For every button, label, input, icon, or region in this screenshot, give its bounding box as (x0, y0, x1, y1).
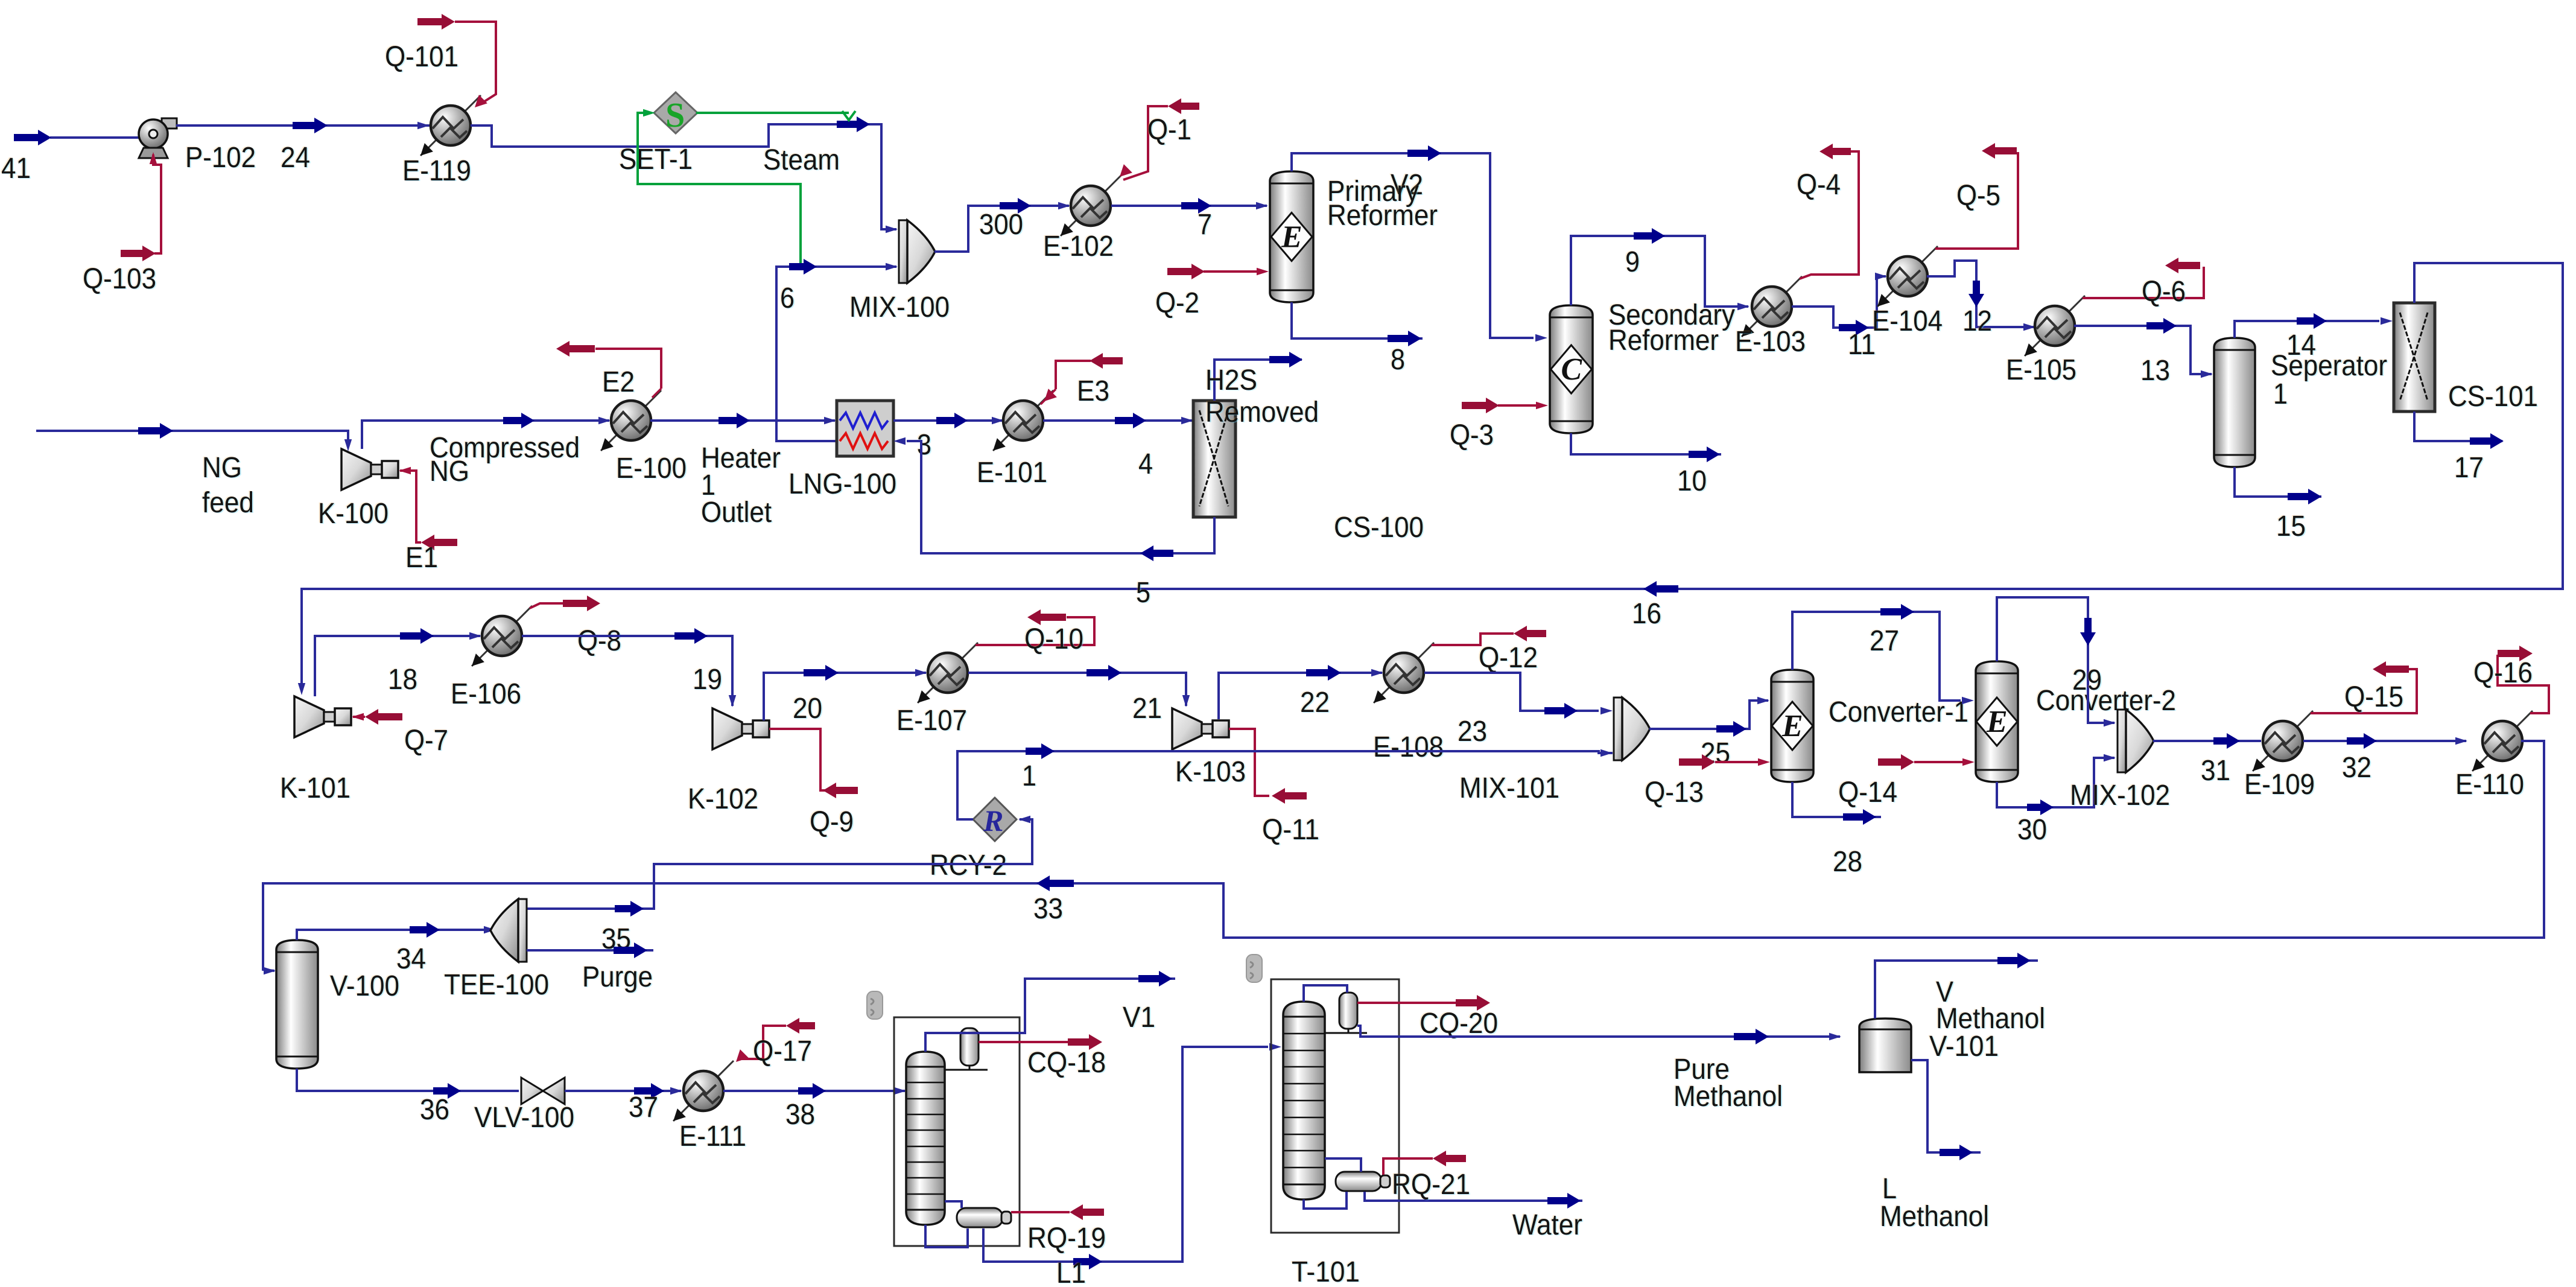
heat exchanger E-103 (1742, 276, 1802, 337)
svg-text:Q-15: Q-15 (2344, 681, 2403, 713)
E-102 inlet arrowhead (1058, 202, 1070, 209)
NG feed arrow (138, 423, 173, 439)
CQ-20 arrow (1456, 995, 1490, 1011)
svg-text:V1: V1 (1123, 1002, 1155, 1034)
Q-9 arrow (823, 783, 858, 798)
svg-text:Q-103: Q-103 (83, 263, 156, 295)
wire T-101 bottoms to reboiler (1325, 1158, 1361, 1172)
svg-text:P-102: P-102 (185, 142, 256, 174)
svg-text:Removed: Removed (1205, 396, 1319, 428)
wire stream 10 (1571, 433, 1721, 454)
RCY-2 inlet arrowhead (1018, 816, 1030, 823)
svg-text:E: E (1986, 705, 2008, 739)
svg-text:R: R (983, 804, 1003, 837)
valve VLV-100 (521, 1078, 565, 1104)
stream 9 arrow (1634, 228, 1665, 244)
stream 24 arrow (293, 118, 328, 133)
Q-2 arrow (1167, 264, 1205, 279)
Q-8 arrow (563, 596, 600, 611)
reactor diamond Converter-1 (1772, 702, 1813, 750)
svg-text:Q-17: Q-17 (753, 1035, 812, 1067)
svg-text:21: 21 (1132, 693, 1162, 725)
svg-text:Q-13: Q-13 (1645, 777, 1704, 809)
stream 41 arrow (14, 130, 51, 145)
stream 33 arrow (1036, 875, 1074, 891)
wire stream 24 P-102 to E-119 (176, 124, 430, 127)
wire Compressed NG K-100 to E-100 (362, 421, 609, 449)
compressor K-103 (1172, 708, 1229, 749)
compressor K-102 (712, 708, 769, 749)
svg-text:E-119: E-119 (402, 155, 471, 187)
svg-text:Q-2: Q-2 (1155, 287, 1199, 319)
Q-12 arrow (1514, 626, 1546, 641)
heat exchanger E-100 (601, 390, 661, 451)
H2S Removed arrow (1269, 352, 1302, 367)
wire stream 31 MIX-102 to E-109 (2153, 740, 2261, 742)
Q-11 arrow (1272, 788, 1307, 804)
heat exchanger E-101 (993, 390, 1053, 451)
svg-text:RQ-21: RQ-21 (1392, 1169, 1470, 1201)
svg-text:19: 19 (693, 664, 722, 696)
Secondary Reformer inlet arrowhead (1535, 334, 1547, 342)
CS-100 inlet arrowhead (1181, 417, 1193, 424)
svg-text:17: 17 (2454, 452, 2484, 484)
vessel Converter-1 (1771, 670, 1813, 782)
stream 25 arrow (1716, 721, 1746, 737)
heat exchanger E-111 (673, 1061, 734, 1121)
svg-text:S: S (665, 95, 685, 135)
wire stream 6 LNG-100 to MIX-100 (776, 267, 896, 441)
svg-text:Methanol: Methanol (1880, 1201, 1989, 1233)
wire Purge stream (527, 949, 653, 952)
stream 20 arrow (804, 665, 839, 681)
wire energy Q-12 (1432, 634, 1514, 645)
wire stream L Methanol (1911, 1060, 1981, 1152)
svg-text:E-111: E-111 (679, 1120, 746, 1152)
reactor diamond Secondary Reformer (1551, 345, 1592, 393)
svg-text:32: 32 (2342, 752, 2371, 784)
svg-text:33: 33 (1033, 893, 1063, 925)
svg-text:E-107: E-107 (896, 705, 967, 737)
K-101 inlet arrowhead (298, 683, 305, 695)
MIX-101 top inlet arrowhead (1600, 707, 1613, 714)
wire stream 38 E-111 to T-100 (723, 1090, 905, 1092)
svg-text:RCY-2: RCY-2 (930, 850, 1007, 882)
svg-text:Methanol: Methanol (1673, 1081, 1783, 1113)
stream 19 arrow (674, 628, 708, 644)
svg-text:Q-5: Q-5 (1956, 180, 2000, 212)
stream 21 arrow (1087, 665, 1121, 681)
wire stream 3 LNG-100 to E-101 (893, 419, 1003, 422)
svg-text:300: 300 (979, 209, 1023, 241)
svg-text:E: E (1281, 220, 1302, 255)
stream 15 arrow (2288, 489, 2321, 504)
Q-17 arrow (786, 1018, 815, 1034)
wire stream 20 K-102 to E-107 (764, 673, 926, 720)
svg-text:feed: feed (202, 487, 254, 519)
wire Steam line E-119 to MIX-100 (471, 124, 896, 229)
svg-text:NG: NG (202, 452, 242, 484)
svg-text:CQ-18: CQ-18 (1027, 1047, 1106, 1079)
stream 13 arrow (2146, 318, 2177, 334)
svg-text:Q-10: Q-10 (1024, 623, 1083, 655)
svg-text:Water: Water (1512, 1209, 1582, 1241)
svg-text:27: 27 (1870, 625, 1899, 657)
svg-text:16: 16 (1632, 598, 1661, 630)
vessel Converter-2 (1976, 661, 2018, 782)
K-100 inlet arrowhead (344, 439, 352, 451)
svg-text:13: 13 (2140, 355, 2170, 387)
wire stream 33 E-110 to V-100 (263, 741, 2544, 971)
Steam stream arrow (837, 116, 870, 132)
Q-103 arrow (121, 246, 156, 261)
svg-text:VLV-100: VLV-100 (474, 1102, 574, 1134)
wire stream 28 (1792, 782, 1881, 817)
svg-text:9: 9 (1625, 246, 1640, 278)
svg-text:E3: E3 (1077, 375, 1109, 407)
svg-text:Q-12: Q-12 (1479, 642, 1538, 674)
column frame T-100 (894, 1017, 1020, 1246)
Q-4 arrow (1819, 144, 1851, 159)
wire stream V Methanol (1875, 961, 2038, 1018)
wire Water stream (1365, 1192, 1582, 1201)
heat exchanger E-119 (420, 95, 481, 156)
svg-text:14: 14 (2286, 329, 2316, 361)
wire energy E3 (1056, 361, 1091, 389)
Q-7 arrowhead (352, 713, 364, 720)
Compressed NG arrow (503, 413, 535, 428)
svg-text:Purge: Purge (582, 961, 653, 993)
wire stream 32 E-109 to E-110 (2303, 740, 2466, 742)
Q-7 arrow (365, 709, 402, 725)
stream 29 down arrow (2080, 618, 2096, 646)
svg-text:Q-14: Q-14 (1838, 777, 1897, 809)
wire stream 25 MIX-101 to Converter-1 (1649, 701, 1768, 729)
wire T-100 overhead / stream V1 (925, 979, 1175, 1052)
component splitter CS-101 (2394, 303, 2435, 412)
stream 27 arrow (1880, 604, 1914, 620)
vessel Secondary Reformer (1550, 305, 1593, 433)
svg-text:Q-4: Q-4 (1797, 169, 1841, 201)
wire energy Q-3 (1498, 404, 1536, 407)
wire stream 7 E-102 to Primary Reformer (1111, 205, 1267, 207)
component splitter CS-100 (1193, 401, 1236, 517)
heat exchanger E-109 (2253, 711, 2313, 771)
wire T-100 bottoms to reboiler (945, 1201, 962, 1208)
wire energy E1 (400, 471, 421, 542)
wire energy Q-103 (153, 154, 161, 253)
Q-3 arrow (1462, 398, 1499, 413)
wire energy Q-5 (1935, 152, 2018, 249)
wire energy Q-16 (2498, 655, 2549, 713)
mixer MIX-101 (1614, 698, 1650, 760)
pump P-102 (139, 118, 177, 158)
svg-text:Converter-2: Converter-2 (2036, 685, 2176, 717)
RQ-19 arrow (1070, 1204, 1104, 1220)
E-106 inlet arrowhead (469, 632, 481, 640)
heat exchanger E-102 (1061, 176, 1121, 236)
svg-text:LNG-100: LNG-100 (788, 468, 896, 500)
wire Pure Methanol stream to V-101 (1357, 1026, 1840, 1037)
E-100 inlet arrowhead (598, 417, 611, 424)
LNG-100 cold inlet arrowhead (893, 437, 906, 445)
stream 37 arrow (634, 1083, 664, 1099)
LNG exchanger LNG-100 (837, 401, 893, 456)
E1 arrow (421, 535, 457, 550)
svg-text:E1: E1 (405, 542, 438, 574)
svg-text:E: E (1781, 709, 1803, 743)
wire stream 29 Converter-2 to MIX-102 (1997, 597, 2114, 723)
heat exchanger E-108 (1374, 643, 1434, 703)
condenser T-100 (945, 1028, 988, 1070)
Purge arrow (614, 942, 647, 958)
wire stream 8 (1292, 302, 1423, 338)
svg-text:29: 29 (2072, 664, 2102, 696)
svg-text:MIX-101: MIX-101 (1459, 772, 1559, 804)
svg-text:Q-7: Q-7 (404, 725, 448, 757)
svg-text:Q-9: Q-9 (810, 806, 854, 838)
svg-text:TEE-100: TEE-100 (444, 969, 549, 1001)
svg-text:T-101: T-101 (1292, 1256, 1360, 1284)
reboiler T-101 (1336, 1172, 1390, 1191)
column shell T-100 (906, 1052, 945, 1225)
svg-text:3: 3 (917, 429, 931, 461)
stream 6 arrow (789, 259, 817, 275)
stream 11 arrow (1839, 320, 1869, 335)
V-101 inlet arrowhead (1829, 1033, 1841, 1040)
stream 7 arrow (1181, 198, 1211, 214)
RQ-21 arrow (1433, 1151, 1466, 1166)
svg-text:NG: NG (430, 456, 469, 488)
CS-101 inlet arrowhead (2381, 317, 2393, 325)
svg-text:7: 7 (1198, 209, 1212, 241)
wire stream 21 E-107 to K-103 (968, 673, 1186, 706)
wire energy Q-7 (353, 716, 365, 718)
stream 16 arrow (1643, 581, 1678, 597)
svg-text:CS-101: CS-101 (2448, 381, 2538, 413)
signal arrowhead down (842, 111, 855, 120)
Q-14 arrow (1878, 754, 1914, 770)
wire stream V2 Primary to Secondary Reformer (1292, 153, 1534, 338)
svg-text:Q-101: Q-101 (385, 41, 458, 73)
heat exchanger E-107 (918, 643, 978, 703)
Primary Reformer inlet arrowhead (1256, 202, 1268, 209)
wire energy Q-11 (1229, 729, 1269, 796)
svg-text:Reformer: Reformer (1608, 325, 1719, 357)
mixer MIX-102 (2118, 710, 2154, 772)
svg-text:5: 5 (1136, 577, 1150, 609)
CQ-18 arrow (1068, 1034, 1102, 1050)
stream 32 arrow (2347, 733, 2377, 749)
svg-text:41: 41 (1, 153, 31, 185)
Converter-1 inlet arrowhead (1757, 697, 1769, 704)
condenser T-101 (1325, 993, 1367, 1033)
wire stream 36 V-100 to VLV-100 (297, 1069, 519, 1091)
column shell T-101 (1283, 1002, 1325, 1200)
svg-text:18: 18 (388, 664, 417, 696)
svg-text:K-100: K-100 (318, 498, 389, 530)
wire energy Q-13 (1715, 761, 1758, 763)
K-103 inlet arrowhead (1182, 695, 1190, 707)
svg-text:E-101: E-101 (977, 457, 1047, 489)
svg-text:Q-6: Q-6 (2142, 276, 2186, 308)
MIX-100 top inlet arrowhead (886, 226, 898, 233)
stream 3 arrow (936, 413, 968, 428)
MIX-102 bottom inlet arrowhead (2104, 754, 2116, 761)
svg-text:4: 4 (1138, 448, 1153, 480)
svg-text:C: C (1561, 352, 1583, 387)
tee TEE-100 (490, 899, 527, 962)
svg-text:36: 36 (420, 1094, 449, 1126)
vessel V-100 (276, 940, 318, 1069)
wire energy Q-15 (2311, 669, 2417, 713)
MIX-100 bottom inlet arrowhead (886, 263, 898, 270)
stream 34 arrow (410, 922, 440, 938)
svg-text:8: 8 (1391, 344, 1405, 376)
Q-16 arrow (2498, 646, 2533, 661)
svg-text:22: 22 (1300, 687, 1330, 719)
stream 22 arrow (1306, 665, 1341, 681)
mixer MIX-100 (899, 220, 935, 283)
stream 14 arrow (2297, 313, 2327, 329)
wire energy Q-101 (455, 22, 496, 103)
svg-text:H2S: H2S (1205, 364, 1257, 396)
svg-text:MIX-100: MIX-100 (849, 291, 950, 323)
wire energy CQ-18 (979, 1041, 1068, 1043)
svg-text:Outlet: Outlet (701, 497, 772, 529)
stream 18 arrow (400, 628, 434, 644)
wire stream 41 into P-102 (50, 136, 139, 139)
Q-101 arrow (417, 14, 455, 30)
svg-text:Q-16: Q-16 (2473, 657, 2533, 689)
svg-text:RQ-19: RQ-19 (1027, 1222, 1106, 1254)
svg-text:E-103: E-103 (1735, 326, 1806, 358)
wire stream 300 MIX-100 to E-102 (934, 206, 1069, 252)
wire stream 16 recycle CS-101 to K-101 (302, 263, 2563, 690)
wire energy E2 (595, 349, 661, 389)
stream 4 arrow (1115, 413, 1146, 428)
E-108 inlet arrowhead (1371, 669, 1383, 676)
Separator inlet arrowhead (2201, 370, 2213, 378)
E-103 inlet arrowhead (1737, 303, 1750, 310)
stream 300 arrow (1000, 198, 1031, 214)
stream 17 arrow (2470, 433, 2504, 449)
Heater 1 Outlet arrow (719, 413, 750, 428)
stream V1 arrow (1138, 971, 1172, 987)
E-110 inlet arrowhead (2455, 737, 2467, 745)
heat exchanger E-105 (2025, 296, 2085, 356)
wire energy Q-14 (1914, 761, 1962, 763)
V-100 inlet arrowhead (264, 967, 276, 974)
svg-text:E-105: E-105 (2006, 354, 2076, 386)
E-105 inlet arrowhead (2023, 323, 2035, 331)
MIX-102 top inlet arrowhead (2104, 719, 2116, 726)
recycle RCY-2 (973, 798, 1017, 841)
wire stream 35 TEE-100 to RCY-2 (527, 819, 1032, 909)
Water arrow (1547, 1193, 1581, 1209)
column trays T-100 (906, 1082, 945, 1194)
heat exchanger E-104 (1877, 246, 1938, 307)
TEE-100 inlet arrowhead (484, 926, 496, 933)
wire signal stream 6 to SET-1 (638, 113, 801, 265)
reactor diamond Primary Reformer (1271, 213, 1312, 261)
heat exchanger E-110 (2472, 711, 2533, 771)
LNG-100 inlet arrowhead (824, 417, 836, 424)
E-119 inlet arrowhead (417, 122, 430, 129)
wire stream 30 Converter-2 to MIX-102 (1997, 758, 2114, 807)
svg-text:Q-11: Q-11 (1262, 814, 1319, 846)
wire stream L1 to T-101 (983, 1047, 1268, 1262)
V Methanol arrow (1997, 953, 2031, 968)
svg-text:E-102: E-102 (1043, 230, 1114, 262)
E1 arrowhead into K-100 (399, 467, 411, 474)
svg-text:Reformer: Reformer (1327, 200, 1438, 232)
svg-text:6: 6 (780, 282, 795, 314)
wire stream 18 K-101 to E-106 (315, 636, 480, 696)
K-102 inlet arrowhead (729, 695, 736, 707)
svg-text:MIX-102: MIX-102 (2070, 780, 2170, 812)
wire stream 17 (2414, 412, 2502, 441)
wire stream 23 E-108 to MIX-101 (1424, 673, 1599, 711)
wire energy Q-6 (2083, 267, 2204, 298)
svg-text:V-100: V-100 (330, 970, 399, 1002)
svg-text:E-110: E-110 (2455, 769, 2524, 801)
wire stream 34 V-100 to TEE-100 (297, 930, 493, 940)
Converter-2 inlet arrowhead (1962, 697, 1974, 704)
Q-14 arrowhead (1962, 758, 1975, 766)
svg-text:E-106: E-106 (451, 678, 521, 710)
svg-text:E2: E2 (602, 366, 635, 398)
wire energy RQ-19 (1011, 1211, 1070, 1213)
stream 35 arrow (615, 901, 644, 917)
compressor K-101 (294, 696, 351, 737)
wire stream 5 CS-100 to LNG-100 (907, 441, 1214, 553)
svg-text:K-102: K-102 (688, 783, 758, 815)
wire stream 12 E-104 to E-105 (1927, 261, 2034, 327)
wire NG feed to K-100 (36, 431, 348, 446)
svg-text:23: 23 (1458, 716, 1487, 748)
svg-text:K-103: K-103 (1175, 756, 1246, 788)
heat exchanger E-106 (472, 606, 532, 666)
E-104 inlet arrowhead (1875, 273, 1887, 280)
svg-text:Q-3: Q-3 (1450, 419, 1494, 451)
svg-text:SET-1: SET-1 (619, 144, 693, 176)
Q-2 arrowhead into reformer (1257, 268, 1269, 275)
wire energy Q-4 (1800, 151, 1859, 279)
stream 1 arrow (1026, 743, 1055, 759)
wire reboiler circulation T-101 (1304, 1192, 1347, 1209)
L Methanol arrow (1940, 1145, 1973, 1160)
column frame T-101 (1271, 979, 1399, 1233)
wire energy Q-9 (769, 729, 825, 790)
wire T-101 overhead to condenser (1304, 985, 1347, 1002)
E-107 inlet arrowhead (915, 669, 927, 676)
stream 30 arrow (2027, 799, 2054, 815)
E3 arrow (1090, 353, 1123, 369)
Q-5 arrow (1982, 143, 2017, 159)
wire signal SET-1 to Steam (696, 112, 849, 114)
svg-text:38: 38 (785, 1099, 815, 1131)
stream L1 arrow (1073, 1254, 1102, 1270)
wire stream 15 (2235, 467, 2321, 497)
stream V2 arrow (1407, 145, 1441, 161)
wire stream 13 E-105 to Separator (2074, 326, 2212, 374)
E-101 inlet arrowhead (992, 417, 1004, 424)
svg-text:CS-100: CS-100 (1334, 512, 1424, 544)
compressor K-100 (341, 449, 398, 490)
wire stream 4 E-101 to CS-100 (1043, 419, 1192, 422)
column marker T-101 (1246, 955, 1262, 982)
